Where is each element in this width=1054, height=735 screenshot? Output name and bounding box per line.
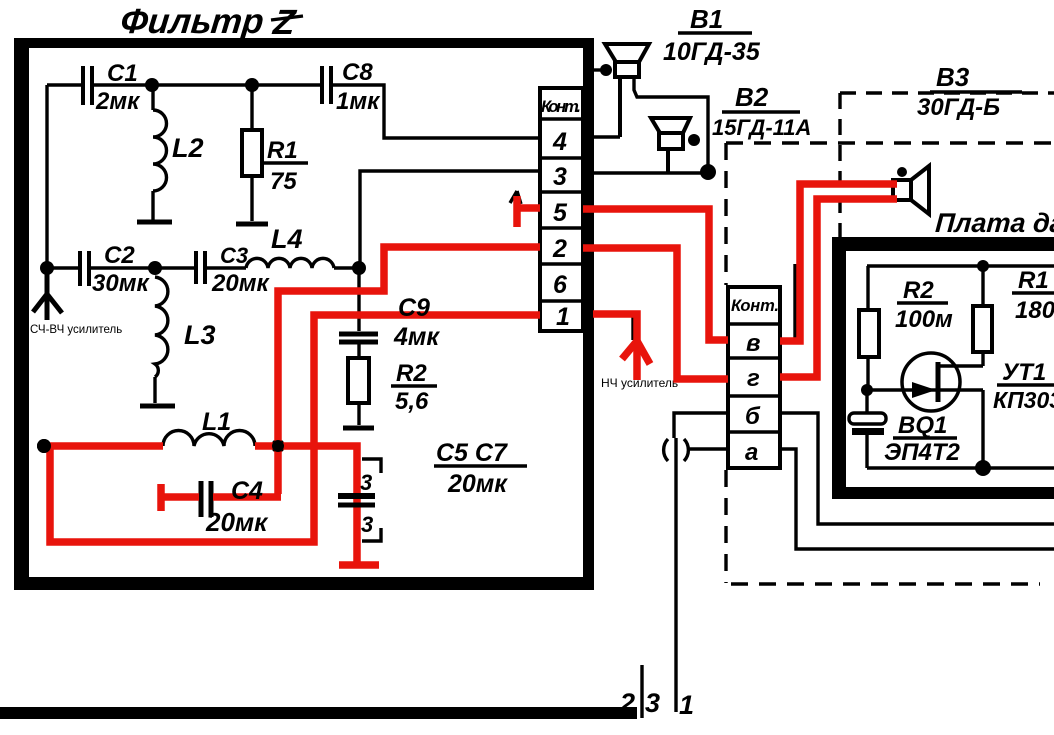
wire: pin а left to jack [687, 447, 728, 450]
svg-text:1: 1 [679, 690, 694, 720]
svg-text:СЧ-ВЧ усилитель: СЧ-ВЧ усилитель [30, 324, 122, 336]
ground L3 [140, 404, 175, 409]
svg-text:C8: C8 [342, 59, 373, 86]
ground L2 [137, 220, 172, 225]
speaker B3 [893, 166, 929, 214]
svg-text:В2: В2 [735, 82, 769, 112]
label B2 [712, 82, 811, 140]
wire: C8 to connector pin 4 [331, 85, 540, 138]
wire: C2 to C3 [89, 266, 196, 269]
board Плата box [832, 237, 1054, 499]
svg-text:3: 3 [645, 688, 660, 718]
bottom panel line [0, 707, 637, 719]
jack symbol [664, 438, 689, 462]
svg-text:Фильтр: Фильтр [119, 2, 266, 41]
svg-text:C9: C9 [398, 294, 430, 322]
label B1 [663, 4, 761, 66]
svg-text:ВQ1: ВQ1 [898, 412, 947, 439]
inductor L1 [163, 408, 255, 446]
svg-text:L3: L3 [184, 320, 216, 350]
resistor R1 board [973, 266, 1054, 366]
red wire: pin 5 to pin в [583, 209, 728, 340]
dashed enclosure B3 [840, 93, 1054, 237]
title Фильтр Z [119, 2, 303, 42]
wire: B2 bottom bus [593, 171, 708, 174]
node B1/B2 [700, 164, 716, 180]
wire: pin 3 to node A [360, 171, 540, 262]
svg-text:20мк: 20мк [211, 270, 270, 297]
bracket bottom with 3 [361, 512, 381, 541]
speaker B1 [592, 44, 708, 172]
svg-text:6: 6 [553, 271, 568, 299]
connector Конт. pins 4 3 5 2 6 1 [540, 88, 583, 331]
wire: left vertical bus [45, 85, 48, 268]
svg-text:20мк: 20мк [447, 470, 508, 498]
capacitor C2 [80, 242, 150, 297]
wire: C1 to C8 [92, 83, 322, 86]
capacitor C1 [83, 60, 141, 115]
svg-text:а: а [745, 439, 758, 466]
svg-text:R1: R1 [1018, 267, 1049, 294]
wire: top net y=85 [47, 83, 82, 86]
wire: jack down to panel [674, 462, 677, 712]
red wire: pin 1 to НЧ arrow [593, 314, 637, 380]
svg-text:C2: C2 [104, 242, 135, 269]
arrow to СЧ-ВЧ усилитель [33, 272, 62, 320]
dashed cabinet boundary [726, 143, 1054, 584]
svg-text:100м: 100м [895, 306, 953, 333]
wire: pin а right run [780, 449, 1054, 549]
wire: C3 to L4 [205, 266, 246, 269]
node L1/C4 junction (top) [272, 440, 284, 452]
inductor L4 [246, 224, 334, 268]
svg-text:30ГД-Б: 30ГД-Б [917, 94, 1000, 121]
capacitor C3 [196, 243, 270, 297]
svg-text:в: в [746, 330, 761, 357]
svg-text:L1: L1 [202, 408, 231, 436]
connector Конт. pins в г б а [728, 287, 780, 468]
svg-text:г: г [747, 365, 760, 392]
red ground C5 C7 [339, 561, 379, 569]
svg-text:4: 4 [552, 128, 567, 156]
svg-text:Плата да: Плата да [934, 208, 1054, 238]
red wire: pin г to B3 [780, 199, 897, 377]
speaker B2 [651, 118, 700, 173]
node L1/C4 junction [271, 439, 285, 453]
label C5 C7 20мк [434, 439, 527, 498]
node L1 left (top) [37, 439, 51, 453]
svg-text:В1: В1 [690, 4, 723, 34]
svg-text:10ГД-35: 10ГД-35 [663, 38, 761, 66]
svg-text:2мк: 2мк [95, 88, 141, 115]
node: input node [40, 261, 54, 275]
resistor R2 board [859, 266, 953, 390]
svg-text:R1: R1 [267, 137, 298, 164]
red wire: pin 1 inside loop [50, 315, 540, 542]
svg-text:ЭП4Т2: ЭП4Т2 [884, 439, 961, 466]
svg-text:5: 5 [553, 199, 568, 227]
red wire: pin 2 inside [278, 247, 540, 494]
node: R1 junction [245, 78, 259, 92]
svg-text:УТ1: УТ1 [1002, 359, 1046, 386]
svg-text:C4: C4 [231, 477, 263, 505]
svg-text:Конт.: Конт. [731, 297, 779, 315]
node L1 left [37, 439, 51, 453]
transistor VT1 [867, 353, 1054, 468]
tick mark [640, 665, 643, 718]
black arrow stub at pin 5 [510, 191, 521, 204]
capacitor C9 [339, 334, 378, 342]
resistor R2 [348, 358, 437, 425]
svg-text:3: 3 [553, 163, 567, 191]
svg-text:1: 1 [556, 303, 570, 331]
wire: L4 to node A [334, 266, 360, 269]
svg-text:15ГД-11А: 15ГД-11А [712, 115, 811, 140]
resistor R1 [242, 85, 308, 221]
svg-text:L2: L2 [172, 133, 204, 163]
node source [975, 460, 991, 476]
node: C1/L2 junction [145, 78, 159, 92]
svg-text:75: 75 [270, 168, 297, 195]
capacitor C4 plates [201, 481, 211, 517]
svg-text:C1: C1 [107, 60, 138, 87]
svg-text:R2: R2 [396, 360, 427, 387]
wire: pin б left to jack [674, 413, 728, 438]
svg-text:б: б [745, 403, 761, 430]
label B3 [917, 62, 1022, 121]
node gate [861, 384, 873, 396]
wire: C9 to R2 [357, 342, 360, 358]
red wire: C4 right [213, 493, 281, 501]
svg-text:2: 2 [552, 235, 567, 263]
red stub C4 [157, 484, 165, 511]
capacitor C5/C7 plates [338, 496, 375, 505]
node top bus [977, 260, 989, 272]
svg-text:2: 2 [619, 688, 635, 718]
wire: mid net y=268 [47, 266, 79, 269]
wire: node A down to C9 [357, 268, 360, 331]
inductor L2 [153, 85, 204, 220]
svg-text:5,6: 5,6 [395, 388, 429, 415]
capacitor C8 [322, 59, 381, 115]
svg-text:Конт.: Конт. [541, 98, 581, 116]
svg-text:КП303: КП303 [993, 387, 1054, 413]
node A [352, 261, 366, 275]
svg-text:180: 180 [1015, 297, 1054, 324]
red wire: L1 line [44, 442, 163, 450]
red wiring [44, 184, 897, 565]
wire: board top bus [867, 264, 1054, 267]
dangling black wire near B3 feed [793, 264, 796, 340]
wire: pin б right run [780, 413, 1054, 524]
svg-text:3: 3 [360, 470, 372, 495]
svg-text:30мк: 30мк [92, 270, 150, 297]
svg-text:L4: L4 [271, 224, 303, 254]
svg-text:3: 3 [361, 512, 373, 537]
svg-text:4мк: 4мк [393, 323, 440, 351]
ground R1 [236, 222, 268, 227]
red arrow НЧ [622, 341, 650, 364]
svg-text:R2: R2 [903, 277, 934, 304]
svg-text:C3: C3 [220, 243, 248, 268]
svg-text:20мк: 20мк [205, 507, 269, 537]
red wire: C4 left [161, 493, 199, 501]
red wire: pin 2 to pin г [583, 248, 728, 379]
inductor L3 [155, 277, 216, 403]
red wire: pin 5 stub [513, 196, 521, 227]
svg-text:В3: В3 [936, 62, 970, 92]
ground R2 [343, 426, 374, 431]
bracket top with 3 [360, 459, 381, 495]
black stub under red arrow [631, 314, 634, 340]
node: L3 junction [148, 261, 162, 275]
svg-text:C5 C7: C5 C7 [436, 439, 508, 467]
red wire: pin в to B3 [780, 184, 897, 341]
component BQ1 [849, 390, 961, 468]
svg-text:1мк: 1мк [336, 88, 381, 115]
wire: board bottom bus [867, 466, 1054, 469]
filter box enclosure [14, 38, 594, 590]
capacitor C5/C7 plates (top) [338, 493, 375, 499]
